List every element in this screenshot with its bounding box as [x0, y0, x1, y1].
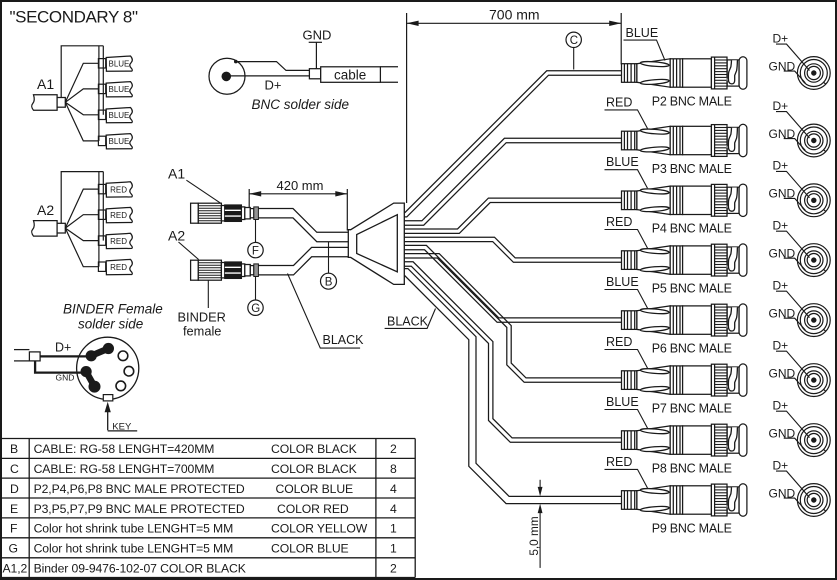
wire A2-3	[65, 228, 98, 241]
svg-text:KEY: KEY	[112, 421, 132, 432]
svg-text:RED: RED	[606, 335, 632, 349]
binder female connector A1	[191, 203, 259, 223]
svg-text:A1,2: A1,2	[3, 561, 28, 575]
cable C to P5	[404, 237, 621, 258]
balloon F	[248, 242, 263, 257]
svg-text:G: G	[251, 303, 260, 315]
center pin dot	[222, 72, 232, 82]
svg-text:D+: D+	[55, 341, 71, 355]
balloon C	[566, 32, 581, 47]
svg-text:RED: RED	[110, 237, 127, 246]
GND wire	[35, 361, 86, 373]
svg-text:BLACK: BLACK	[387, 315, 429, 329]
svg-text:B: B	[10, 442, 18, 456]
svg-text:CABLE: RG-58 LENGHT=420MM: CABLE: RG-58 LENGHT=420MM	[34, 442, 215, 456]
svg-text:D+: D+	[773, 31, 789, 45]
svg-text:RED: RED	[606, 95, 632, 109]
shield bus wire A1	[61, 46, 103, 98]
balloon G	[248, 300, 263, 315]
cable C to P2	[404, 71, 621, 213]
solder square A2-3	[98, 236, 105, 245]
solder square A2-1	[98, 184, 105, 193]
svg-text:COLOR BLACK: COLOR BLACK	[271, 442, 357, 456]
svg-text:E: E	[10, 502, 18, 516]
flag BLUE A1-4	[106, 134, 132, 149]
leader A2	[179, 242, 199, 260]
svg-text:C: C	[10, 462, 19, 476]
cable A2 body	[32, 221, 57, 237]
svg-text:BLUE: BLUE	[109, 85, 130, 94]
cable stub	[14, 349, 29, 351]
svg-text:BLUE: BLUE	[626, 26, 659, 40]
cable C to P7	[404, 254, 621, 378]
svg-text:2: 2	[390, 561, 397, 575]
flag RED A2-3	[106, 233, 132, 248]
svg-text:BINDER Female: BINDER Female	[63, 302, 163, 317]
svg-text:C: C	[570, 35, 578, 47]
BNC face P5	[797, 244, 830, 277]
binder female connector A2	[191, 260, 259, 280]
svg-text:BLACK: BLACK	[323, 333, 365, 347]
svg-text:700 mm: 700 mm	[489, 7, 540, 23]
BNC plug P4	[622, 184, 747, 216]
svg-text:1: 1	[390, 542, 397, 556]
balloon C leader	[573, 48, 575, 70]
BNC shell circle	[209, 58, 245, 94]
wire A1-3	[65, 102, 98, 115]
BNC face P3	[797, 124, 830, 157]
svg-text:P9 BNC MALE: P9 BNC MALE	[652, 521, 732, 535]
svg-text:RED: RED	[606, 455, 632, 469]
svg-text:BLUE: BLUE	[109, 111, 130, 120]
svg-text:A2: A2	[37, 202, 54, 218]
wire A1-1	[65, 63, 98, 102]
svg-text:female: female	[183, 324, 221, 339]
hot shrink tube G leader	[255, 277, 257, 300]
connector A2 plug square	[57, 223, 65, 233]
connector A1 plug square	[57, 98, 65, 108]
shield bus wire A2	[61, 172, 103, 224]
svg-text:D+: D+	[773, 99, 789, 113]
shield wire	[236, 62, 310, 71]
svg-text:cable: cable	[334, 68, 366, 83]
wire A1-2	[65, 89, 98, 102]
pin GND pair	[86, 372, 94, 387]
cable C to P8	[404, 262, 621, 438]
solder square A2-2	[98, 210, 105, 219]
svg-text:D+: D+	[773, 339, 789, 353]
svg-text:GND: GND	[303, 28, 332, 43]
splitter inner shell	[357, 215, 398, 272]
svg-text:P2,P4,P6,P8 BNC MALE PROTECTE: P2,P4,P6,P8 BNC MALE PROTECTED	[34, 482, 245, 496]
svg-text:D+: D+	[773, 219, 789, 233]
svg-text:8: 8	[390, 462, 397, 476]
svg-text:COLOR BLACK: COLOR BLACK	[271, 462, 357, 476]
BNC face P8	[797, 424, 830, 457]
BNC face P6	[797, 304, 830, 337]
splitter outer shell	[348, 203, 404, 284]
svg-text:A1: A1	[168, 166, 185, 182]
svg-text:Color hot shrink tube LENGHT=: Color hot shrink tube LENGHT=5 MM	[34, 522, 234, 536]
open pin 2	[124, 366, 134, 376]
BNC plug P8	[622, 424, 747, 456]
svg-text:1: 1	[390, 522, 397, 536]
svg-text:G: G	[9, 542, 18, 556]
BNC plug P9	[622, 484, 747, 516]
svg-text:P6 BNC MALE: P6 BNC MALE	[652, 342, 732, 356]
solder square A2-4	[98, 262, 105, 271]
flag RED A2-4	[106, 259, 132, 274]
svg-text:P3,P5,P7,P9 BNC MALE PROTECTE: P3,P5,P7,P9 BNC MALE PROTECTED	[34, 502, 245, 516]
bus rail A1	[98, 46, 100, 141]
svg-text:A2: A2	[168, 228, 185, 244]
balloon B leader	[328, 242, 330, 274]
D+ wire	[40, 355, 91, 357]
svg-text:RED: RED	[110, 263, 127, 272]
cable C to P9	[404, 269, 621, 497]
svg-text:RED: RED	[606, 215, 632, 229]
BNC plug P7	[622, 364, 747, 396]
open pin 3	[116, 381, 126, 391]
svg-text:P4 BNC MALE: P4 BNC MALE	[652, 222, 732, 236]
svg-text:A1: A1	[37, 76, 54, 92]
open pin 1	[118, 351, 128, 361]
svg-text:F: F	[252, 245, 259, 257]
binder A1 cable to splitter	[258, 209, 348, 233]
svg-text:COLOR YELLOW: COLOR YELLOW	[271, 522, 368, 536]
GND wire	[315, 42, 317, 69]
cable C to P3	[404, 138, 621, 221]
shield junction dot	[234, 60, 238, 64]
balloon B	[321, 273, 337, 289]
svg-text:GND: GND	[56, 372, 75, 382]
svg-text:BNC solder side: BNC solder side	[252, 97, 350, 112]
svg-text:D+: D+	[773, 458, 789, 472]
BNC face P4	[797, 184, 830, 217]
svg-text:P3 BNC MALE: P3 BNC MALE	[652, 162, 732, 176]
flag BLUE A1-3	[106, 108, 132, 123]
svg-text:4: 4	[390, 482, 397, 496]
svg-text:COLOR BLUE: COLOR BLUE	[271, 542, 349, 556]
binder A2 cable to splitter	[258, 247, 348, 265]
svg-text:Color hot shrink tube LENGHT=: Color hot shrink tube LENGHT=5 MM	[34, 542, 234, 556]
svg-text:BLUE: BLUE	[606, 395, 639, 409]
svg-text:BLUE: BLUE	[606, 275, 639, 289]
svg-text:D: D	[10, 482, 19, 496]
solder square A1-3	[98, 110, 105, 119]
svg-text:BLUE: BLUE	[606, 155, 639, 169]
svg-text:4: 4	[390, 502, 397, 516]
svg-text:D+: D+	[773, 159, 789, 173]
flag RED A2-1	[106, 182, 132, 197]
key notch	[103, 395, 113, 401]
svg-text:COLOR RED: COLOR RED	[277, 502, 349, 516]
bus rail A2	[98, 172, 100, 267]
connector face circle	[77, 337, 139, 399]
extension line right	[620, 13, 622, 64]
hot shrink tube F leader	[255, 220, 257, 243]
dimension line	[249, 193, 347, 195]
BNC face P7	[797, 364, 830, 397]
svg-text:BLUE: BLUE	[109, 60, 130, 69]
svg-text:BLUE: BLUE	[109, 137, 130, 146]
svg-text:5,0 mm: 5,0 mm	[527, 516, 541, 556]
svg-text:P5 BNC MALE: P5 BNC MALE	[652, 282, 732, 296]
BNC plug P3	[622, 124, 747, 156]
BINDER female caption leader	[207, 281, 209, 309]
BNC plug P6	[622, 304, 747, 336]
svg-text:D+: D+	[773, 279, 789, 293]
svg-text:RED: RED	[110, 211, 127, 220]
solder square A1-4	[98, 136, 105, 145]
svg-text:420 mm: 420 mm	[277, 178, 324, 193]
svg-text:F: F	[10, 522, 17, 536]
svg-text:solder side: solder side	[78, 317, 143, 332]
svg-text:B: B	[325, 277, 333, 289]
cable C to P6	[404, 245, 621, 318]
flag RED A2-2	[106, 207, 132, 222]
svg-text:D+: D+	[773, 399, 789, 413]
svg-text:RED: RED	[110, 185, 127, 194]
BNC face P9	[797, 484, 830, 517]
svg-text:P7 BNC MALE: P7 BNC MALE	[652, 402, 732, 416]
leader A1	[186, 180, 221, 203]
svg-text:CABLE: RG-58 LENGHT=700MM: CABLE: RG-58 LENGHT=700MM	[34, 462, 215, 476]
extension line left	[406, 13, 408, 203]
cable A1 body	[32, 95, 57, 111]
extension line left	[248, 189, 250, 208]
wire A2-1	[65, 189, 98, 228]
cable ferrule square	[309, 69, 320, 79]
cable box	[321, 67, 381, 83]
wire A2-4	[65, 228, 98, 267]
KEY arrow	[107, 411, 109, 430]
cable C to P4	[404, 198, 621, 229]
flag BLUE A1-2	[106, 82, 132, 97]
wire A1-4	[65, 102, 98, 141]
dimension line	[407, 22, 622, 24]
BNC plug P5	[622, 244, 747, 276]
svg-text:P8 BNC MALE: P8 BNC MALE	[652, 462, 732, 476]
BNC face P2	[797, 57, 830, 90]
svg-text:BINDER: BINDER	[178, 310, 226, 325]
svg-text:2: 2	[390, 442, 397, 456]
wire A2-2	[65, 215, 98, 228]
BNC plug P2	[622, 57, 747, 89]
svg-text:COLOR BLUE: COLOR BLUE	[276, 482, 354, 496]
solder square A1-2	[98, 84, 105, 93]
svg-text:P2 BNC MALE: P2 BNC MALE	[652, 95, 732, 109]
flag BLUE A1-1	[106, 56, 132, 71]
extension line right	[346, 189, 348, 231]
solder square A1-1	[98, 59, 105, 68]
svg-text:D+: D+	[265, 78, 282, 93]
D+ wire	[226, 75, 309, 77]
svg-text:"SECONDARY 8": "SECONDARY 8"	[10, 8, 138, 27]
pin D+ pair	[91, 349, 108, 356]
svg-text:Binder 09-9476-102-07 COLOR BL: Binder 09-9476-102-07 COLOR BLACK	[34, 561, 246, 575]
